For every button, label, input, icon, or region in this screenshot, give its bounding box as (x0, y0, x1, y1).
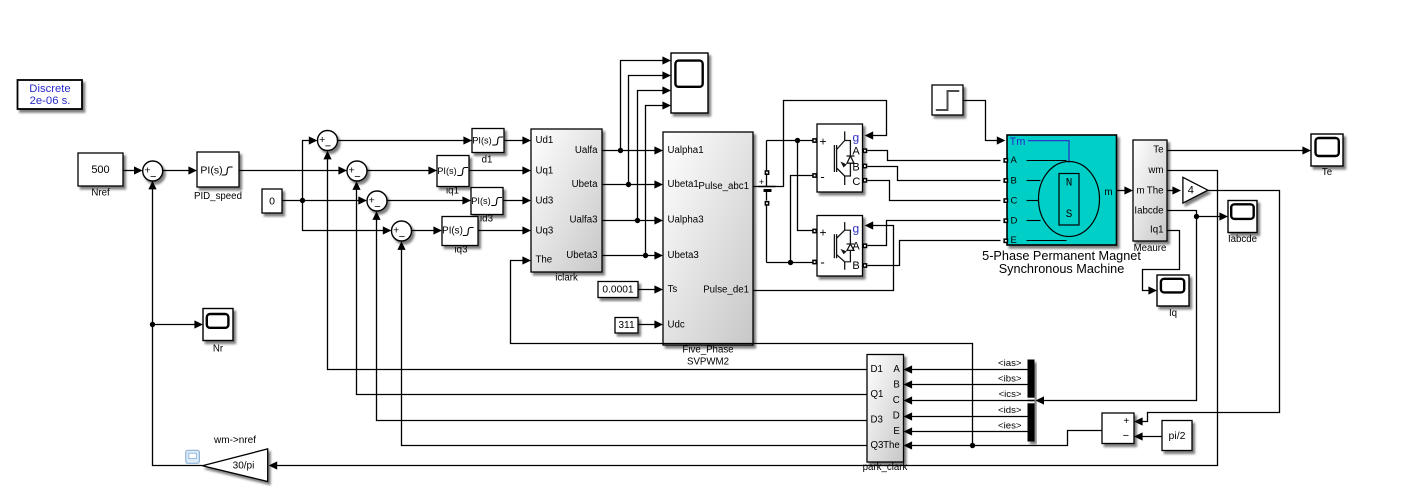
svg-text:E: E (1011, 235, 1017, 246)
svg-text:pi/2: pi/2 (1169, 430, 1186, 442)
wire park_clark D1 feedback to sum d1 (323, 151, 866, 370)
wire PI iq1 to iclark Uq1 (469, 166, 532, 174)
wire sum to PI d1 (338, 136, 473, 144)
constant Ts 0.0001 (598, 282, 638, 298)
svg-text:−: − (399, 231, 405, 243)
wire PI d1 to iclark Ud1 (505, 136, 532, 144)
scope Iq (1157, 275, 1189, 306)
svg-text:PI(s): PI(s) (442, 226, 463, 237)
sum junction d1 error (318, 131, 338, 153)
wire <ids> demux to park_clark D (904, 412, 1028, 420)
sum block theta minus pi/2 (1102, 413, 1134, 444)
wire DC negative rail (767, 206, 813, 263)
svg-text:<ias>: <ias> (998, 358, 1022, 369)
wire Iq1 to scope (1143, 231, 1180, 295)
converter U2 port B (863, 263, 868, 268)
svg-text:Iq: Iq (1169, 308, 1177, 319)
svg-text:C: C (893, 395, 900, 406)
svg-text:−: − (325, 141, 331, 153)
converter U2 port A (863, 243, 868, 248)
sum junction id3 error (367, 191, 387, 213)
bus selector demux bar (1028, 360, 1035, 442)
gain block 30/pi (202, 449, 267, 482)
svg-text:4: 4 (1188, 185, 1194, 197)
wire sum to PI iq3 (412, 226, 443, 234)
svg-text:Udc: Udc (668, 320, 685, 331)
svg-text:<ids>: <ids> (998, 405, 1022, 416)
wire park_clark D3 feedback to sum id3 (372, 211, 866, 420)
svg-text:−: − (150, 171, 156, 183)
wire tap Ualfa/Ualpha1 up to scope (621, 56, 672, 150)
svg-text:Synchronous Machine: Synchronous Machine (999, 262, 1125, 276)
svg-text:Q1: Q1 (871, 389, 884, 400)
svg-text:N: N (1066, 177, 1073, 189)
wire <ibs> demux to park_clark B (904, 380, 1028, 388)
node Iabcde tap (1194, 214, 1199, 219)
wire theta tap to iclark The (511, 256, 973, 445)
svg-text:Ubeta3: Ubeta3 (668, 250, 699, 261)
svg-text:A: A (1011, 155, 1018, 166)
svg-text:g: g (852, 131, 859, 145)
subsystem park_clark (863, 355, 908, 474)
node Nr tap (150, 322, 155, 327)
constant pi/2 (1162, 421, 1192, 451)
svg-text:+: + (759, 177, 764, 187)
wire sum to PI id3 (387, 196, 472, 204)
svg-text:m: m (1104, 187, 1112, 198)
svg-text:A: A (893, 364, 900, 375)
svg-text:B: B (852, 161, 859, 173)
scope Nr (203, 309, 233, 341)
svg-text:Ud1: Ud1 (536, 135, 554, 146)
wire Te to scope (1167, 146, 1312, 154)
svg-text:D: D (1011, 216, 1018, 227)
svg-text:+: + (819, 226, 826, 240)
wire constant0 to junction (283, 200, 303, 202)
subsystem Five_Phase SVPWM2 (663, 132, 753, 368)
svg-text:30/pi: 30/pi (233, 461, 255, 472)
node tap Ualfa/Ualpha1 (618, 148, 623, 153)
wire Iabcde to scope (1167, 211, 1229, 221)
wire phase D converter2 to machine (868, 221, 1001, 246)
svg-text:B: B (1011, 175, 1017, 186)
wire 500 to speed sum (123, 166, 143, 174)
wire Pulse_abc1 to converter1 gate (753, 101, 887, 187)
svg-text:−: − (374, 201, 380, 213)
wire junction to sum id3 (303, 196, 367, 204)
wire PI iq3 to iclark Uq3 (479, 226, 532, 234)
wire junction up to sum d1 (303, 136, 318, 200)
wire phase C converter1 to machine (868, 181, 1001, 201)
svg-text:A: A (852, 146, 860, 158)
svg-text:d1: d1 (482, 154, 493, 165)
machine port D (1003, 218, 1008, 223)
wire machine m to Meaure (1117, 186, 1134, 194)
wire junction down to sum iq3 (303, 201, 392, 235)
converter U2 minus port (812, 260, 817, 265)
PI controller iq3 (442, 217, 478, 256)
svg-text:B: B (852, 260, 859, 272)
wire 30/pi output feedback (148, 181, 202, 466)
wire Iabcde tap down to demux (1035, 217, 1196, 405)
DC voltage source battery (759, 175, 776, 201)
svg-text:PID_speed: PID_speed (194, 191, 242, 202)
svg-text:SVPWM2: SVPWM2 (687, 357, 729, 368)
svg-text:E: E (893, 426, 900, 437)
wire negative tap to converter1 minus (791, 176, 813, 263)
wire speed sum to PID_speed (163, 166, 198, 174)
wire Ts to SVPWM2 (639, 285, 664, 293)
wire theta sum output to park_clark The (904, 431, 1103, 450)
converter U1 port A (863, 148, 868, 153)
subsystem Meaure (1133, 140, 1167, 254)
constant Udc 311 (615, 318, 638, 334)
svg-text:-: - (820, 255, 824, 270)
svg-text:Ubeta3: Ubeta3 (566, 250, 597, 261)
svg-text:<ibs>: <ibs> (998, 374, 1022, 385)
svg-text:The: The (883, 440, 900, 451)
node theta tap (970, 443, 975, 448)
converter U2 (2-arm IGBT bridge) (817, 216, 863, 277)
node tap Ubeta/Ubeta1 (626, 182, 631, 187)
wire PID_speed to sum iq1ref (239, 166, 348, 174)
wire Ubeta/Ubeta1 (603, 180, 664, 188)
wire Nr tap to scope Nr (153, 320, 204, 328)
wire phase E converter2 to machine (868, 241, 1001, 266)
svg-text:D1: D1 (871, 364, 883, 375)
svg-text:<ics>: <ics> (999, 389, 1022, 400)
wire tap Ualfa3/Ualpha3 up to scope (638, 86, 672, 220)
wire <ics> demux to park_clark C (904, 396, 1028, 404)
svg-text:Ualpha3: Ualpha3 (668, 215, 704, 226)
svg-text:−: − (354, 171, 360, 183)
svg-text:Te: Te (1322, 167, 1332, 178)
converter U1 port C (863, 178, 868, 183)
wire phase B converter1 to machine (868, 167, 1001, 181)
wire <ias> demux to park_clark A (904, 365, 1028, 373)
constant Nref value 500 (78, 153, 123, 198)
wire Pulse_de1 to converter2 gate (753, 221, 894, 290)
svg-text:B: B (893, 380, 899, 391)
wire <ies> demux to park_clark E (904, 427, 1028, 435)
svg-text:wm->nref: wm->nref (213, 435, 256, 446)
battery bottom port (765, 201, 770, 206)
svg-text:Ualpha1: Ualpha1 (668, 145, 704, 156)
svg-text:Te: Te (1153, 145, 1163, 156)
svg-text:Ubeta1: Ubeta1 (668, 179, 699, 190)
svg-text:PI(s): PI(s) (200, 165, 222, 177)
svg-text:2e-06 s.: 2e-06 s. (30, 95, 71, 107)
wire Ualfa/Ualpha1 (603, 146, 664, 154)
node negative rail tap (788, 260, 793, 265)
svg-text:iclark: iclark (555, 273, 578, 284)
step source (load torque) (932, 85, 963, 115)
svg-text:Five_Phase: Five_Phase (682, 345, 733, 356)
converter U1 plus port (812, 138, 817, 143)
svg-text:C: C (852, 176, 860, 188)
annotation icon (small scope) (186, 450, 200, 463)
wire The to gain4 (1167, 186, 1182, 194)
svg-text:Ud3: Ud3 (536, 196, 554, 207)
svg-text:Iq1: Iq1 (1150, 225, 1163, 236)
svg-text:Iabcde: Iabcde (1228, 234, 1257, 245)
svg-text:-: - (820, 169, 824, 184)
PI controller iq1 (437, 156, 469, 197)
sum junction iq3 error (392, 221, 412, 243)
svg-text:The: The (1147, 185, 1164, 196)
svg-text:Uq3: Uq3 (536, 226, 554, 237)
svg-text:wm: wm (1147, 165, 1163, 176)
svg-text:D3: D3 (871, 415, 883, 426)
svg-text:Discrete: Discrete (29, 83, 70, 95)
machine port B (1003, 178, 1008, 183)
svg-text:500: 500 (91, 164, 109, 176)
wire Ualfa3/Ualpha3 (603, 216, 664, 224)
sum junction speed error (143, 161, 163, 183)
node constant0 junction (300, 198, 305, 203)
svg-text:<ies>: <ies> (998, 420, 1022, 431)
svg-text:0: 0 (269, 196, 275, 208)
svg-text:311: 311 (618, 320, 635, 331)
machine port C (1003, 198, 1008, 203)
machine port E (1003, 238, 1008, 243)
sum junction iq1 error (347, 161, 367, 183)
wire step to machine Tm (963, 101, 1006, 145)
converter U2 plus port (812, 229, 817, 234)
svg-text:+: + (1123, 416, 1129, 427)
converter U1 port B (863, 164, 868, 169)
svg-text:PI(s): PI(s) (471, 196, 490, 206)
wire park_clark Q1 feedback to sum iq1 (352, 181, 866, 394)
svg-text:Pulse_de1: Pulse_de1 (703, 285, 749, 296)
constant 0 (d-axis reference) (262, 189, 282, 213)
gain block 4 (1183, 177, 1208, 203)
converter U1 (3-arm IGBT bridge) (817, 124, 863, 192)
wire PI id3 to iclark Ud3 (503, 196, 532, 204)
svg-text:C: C (1011, 195, 1018, 206)
subsystem iclark (531, 129, 602, 284)
wire Ubeta3/Ubeta3 (603, 251, 664, 259)
node tap Ualfa3/Ualpha3 (635, 218, 640, 223)
svg-text:iq1: iq1 (446, 186, 459, 197)
wire park_clark Q3 feedback to sum iq3 (397, 241, 866, 445)
svg-text:Meaure: Meaure (1134, 243, 1167, 254)
svg-text:park_clark: park_clark (863, 462, 908, 473)
svg-text:Ualfa3: Ualfa3 (569, 215, 597, 226)
PI controller id3 (471, 188, 503, 225)
svg-text:Ualfa: Ualfa (575, 145, 598, 156)
wire positive tap to converter2 plus (798, 141, 813, 231)
svg-text:A: A (852, 240, 860, 252)
wire Udc to SVPWM2 (639, 320, 664, 328)
svg-text:Q3: Q3 (871, 440, 884, 451)
svg-text:The: The (536, 255, 553, 266)
scope Iabcde (1228, 201, 1257, 233)
block 5-Phase PMSM machine (982, 135, 1141, 276)
svg-text:Pulse_abc1: Pulse_abc1 (698, 181, 749, 192)
svg-text:PI(s): PI(s) (437, 166, 456, 176)
wire gain4 to angle sum (1134, 191, 1280, 426)
machine port A (1003, 158, 1008, 163)
wire tap Ubeta/Ubeta1 up to scope (629, 71, 672, 184)
svg-text:+: + (819, 135, 826, 149)
battery top port (765, 170, 770, 175)
wire DC positive rail (767, 141, 813, 171)
wire sum to PI iq1 (367, 166, 438, 174)
scope Te (1311, 134, 1343, 166)
svg-text:0.0001: 0.0001 (602, 284, 633, 295)
svg-text:Nref: Nref (91, 187, 110, 198)
node tap Ubeta3/Ubeta3 (643, 253, 648, 258)
converter U1 minus port (812, 173, 817, 178)
svg-text:id3: id3 (480, 214, 493, 225)
wire tap Ubeta3/Ubeta3 up to scope (646, 101, 672, 255)
svg-text:g: g (852, 221, 859, 235)
svg-text:S: S (1066, 209, 1073, 221)
svg-text:D: D (893, 411, 900, 422)
scope voltage scope (671, 53, 708, 113)
svg-text:Ubeta: Ubeta (572, 179, 598, 190)
svg-text:PI(s): PI(s) (472, 136, 491, 146)
svg-text:Nr: Nr (213, 343, 224, 354)
wire pi/2 to sum minus (1134, 432, 1163, 440)
svg-text:Uq1: Uq1 (536, 166, 554, 177)
wire wm feedback (269, 171, 1218, 470)
svg-text:5-Phase Permanent Magnet: 5-Phase Permanent Magnet (982, 249, 1141, 263)
annotation Discrete 2e-06 s. (18, 80, 83, 109)
PID controller PID_speed (194, 152, 242, 202)
svg-text:Iabcde: Iabcde (1134, 206, 1163, 217)
svg-text:iq3: iq3 (455, 244, 468, 255)
PI controller d1 (472, 129, 504, 166)
svg-text:−: − (1123, 430, 1129, 442)
svg-text:Tm: Tm (1010, 136, 1026, 148)
svg-text:Ts: Ts (668, 284, 678, 295)
node positive rail tap (795, 138, 800, 143)
svg-text:m: m (1137, 185, 1145, 196)
wire phase A converter1 to machine (868, 151, 1001, 161)
